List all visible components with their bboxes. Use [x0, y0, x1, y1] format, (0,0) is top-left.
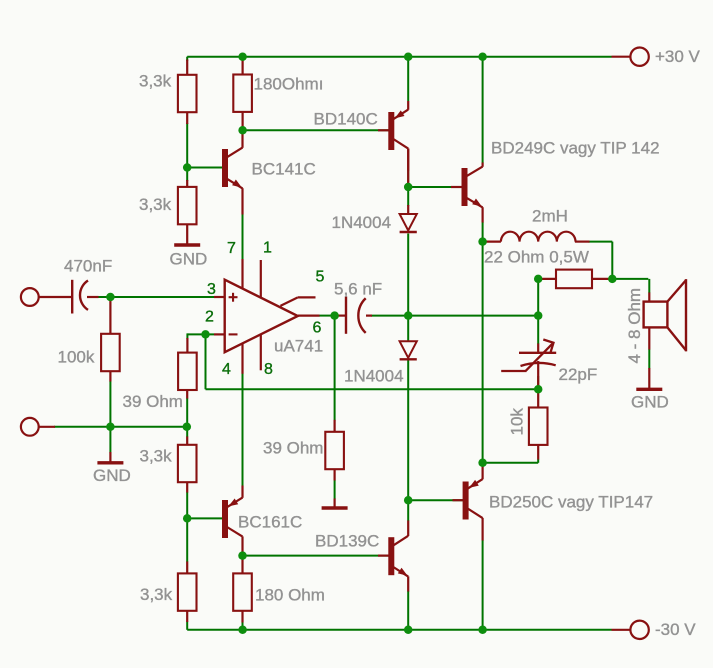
- svg-text:5: 5: [316, 269, 325, 286]
- svg-text:BD140C: BD140C: [314, 110, 378, 129]
- svg-text:3,3k: 3,3k: [139, 72, 172, 91]
- svg-text:BD249C vagy TIP 142: BD249C vagy TIP 142: [491, 139, 660, 158]
- svg-text:4 - 8 Ohm: 4 - 8 Ohm: [625, 288, 644, 364]
- svg-text:uA741: uA741: [274, 337, 323, 356]
- svg-text:3,3k: 3,3k: [140, 585, 173, 604]
- svg-text:7: 7: [227, 240, 236, 257]
- svg-text:-30 V: -30 V: [655, 620, 696, 639]
- svg-text:GND: GND: [93, 466, 131, 485]
- svg-text:BD250C vagy TIP147: BD250C vagy TIP147: [489, 493, 653, 512]
- svg-text:3,3k: 3,3k: [140, 447, 173, 466]
- svg-text:1: 1: [263, 240, 272, 257]
- svg-text:22pF: 22pF: [559, 365, 598, 384]
- svg-text:180Ohmı: 180Ohmı: [254, 75, 324, 94]
- svg-text:BC161C: BC161C: [238, 513, 302, 532]
- svg-text:180 Ohm: 180 Ohm: [255, 586, 325, 605]
- svg-text:BC141C: BC141C: [252, 160, 316, 179]
- svg-text:2mH: 2mH: [532, 207, 568, 226]
- svg-text:22 Ohm 0,5W: 22 Ohm 0,5W: [484, 248, 589, 267]
- svg-text:8: 8: [264, 361, 273, 378]
- svg-text:BD139C: BD139C: [315, 532, 379, 551]
- svg-text:1N4004: 1N4004: [344, 367, 404, 386]
- svg-text:39 Ohm: 39 Ohm: [123, 392, 183, 411]
- svg-text:+30 V: +30 V: [655, 47, 701, 66]
- svg-text:1N4004: 1N4004: [332, 213, 392, 232]
- svg-text:5,6 nF: 5,6 nF: [334, 280, 382, 299]
- svg-text:10k: 10k: [508, 408, 527, 436]
- svg-text:2: 2: [205, 309, 214, 326]
- svg-text:3: 3: [207, 281, 216, 298]
- svg-text:GND: GND: [631, 393, 669, 412]
- svg-text:39 Ohm: 39 Ohm: [263, 439, 323, 458]
- svg-text:4: 4: [222, 361, 231, 378]
- svg-text:3,3k: 3,3k: [139, 195, 172, 214]
- svg-text:100k: 100k: [58, 348, 95, 367]
- svg-text:6: 6: [313, 320, 322, 337]
- svg-text:GND: GND: [170, 249, 208, 268]
- svg-text:470nF: 470nF: [64, 257, 112, 276]
